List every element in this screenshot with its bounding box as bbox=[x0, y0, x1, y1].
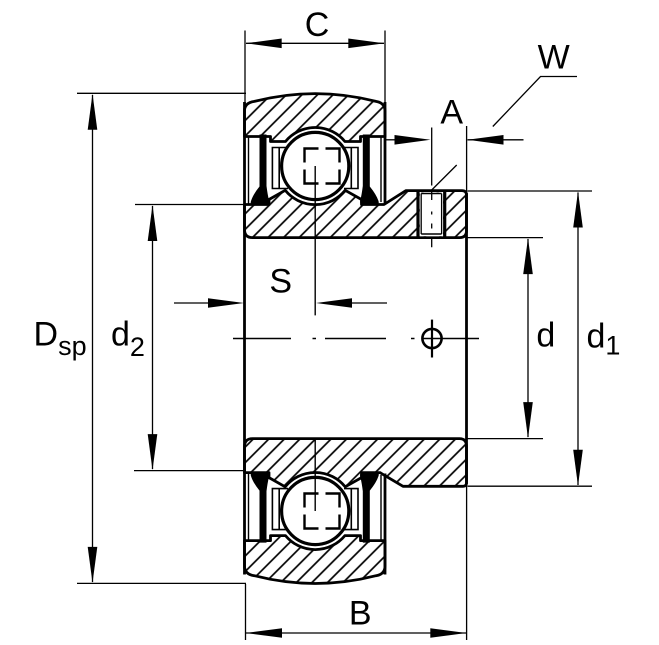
seal washer line right top bbox=[380, 137, 382, 203]
screw position circle vertical tick bbox=[431, 320, 433, 358]
B arrow right bbox=[430, 628, 466, 638]
A dimension right arrow bbox=[468, 139, 524, 141]
cage bottom-right lines bbox=[344, 489, 358, 530]
cage top-right lines bbox=[344, 148, 358, 189]
S dimension left arrow bbox=[174, 302, 209, 304]
d2 extension line top bbox=[135, 204, 246, 206]
Dsp extension line top bbox=[77, 92, 246, 94]
cage top-left lines bbox=[272, 148, 288, 189]
A extension line right bbox=[466, 126, 468, 640]
ball top bbox=[282, 132, 349, 199]
outer ring right face bottom bbox=[384, 474, 387, 575]
ball bottom bbox=[282, 477, 349, 544]
ball center plane line bottom bbox=[314, 439, 316, 511]
seal bottom-right (black) bbox=[360, 472, 379, 542]
grub screw top edge bbox=[421, 193, 441, 195]
seal washer line left bottom bbox=[248, 473, 250, 541]
seal top-left (black) bbox=[251, 135, 269, 205]
S dimension right arrow bbox=[352, 302, 387, 304]
grub screw hole (white cut in top band) bbox=[420, 192, 443, 236]
d2 dimension line bbox=[152, 206, 154, 469]
C dimension line bbox=[246, 42, 384, 44]
d1 extension line top bbox=[468, 190, 593, 192]
seal washer line left top bbox=[248, 137, 250, 205]
d1 extension line bottom bbox=[468, 485, 593, 487]
ball top dashed square bbox=[305, 149, 340, 184]
screw position circle bbox=[422, 329, 441, 348]
C extension line left bbox=[244, 31, 246, 105]
d arrow bottom bbox=[523, 402, 533, 438]
d1 arrow top bbox=[573, 192, 583, 228]
grub screw thread line left bbox=[420, 194, 422, 235]
d extension line top bbox=[468, 237, 544, 239]
grub screw hole right wall bbox=[443, 191, 446, 237]
left face line bbox=[243, 102, 246, 575]
Dsp extension line bottom bbox=[77, 582, 246, 584]
B arrow left bbox=[246, 628, 282, 638]
svg-text:d: d bbox=[536, 317, 555, 355]
inner ring top band (hatched) bbox=[245, 190, 467, 237]
outer ring right face top bbox=[384, 102, 387, 203]
seal washer line right bottom bbox=[380, 475, 382, 541]
grub screw axis centerline bbox=[431, 128, 433, 248]
Dsp arrow bottom bbox=[88, 547, 98, 583]
d2 arrow bottom bbox=[148, 434, 158, 470]
B dimension line bbox=[246, 632, 466, 634]
d dimension line bbox=[527, 239, 529, 437]
C arrow right bbox=[348, 39, 384, 49]
outer ring top section (hatched) bbox=[245, 94, 386, 142]
d2 extension line bottom bbox=[134, 470, 246, 472]
A dimension left arrow bbox=[386, 139, 395, 141]
d2 arrow top bbox=[148, 205, 158, 241]
inner ring right face bbox=[465, 193, 468, 484]
seal bottom-left (black) bbox=[251, 472, 269, 542]
Dsp arrow top bbox=[88, 94, 98, 130]
grub screw hole left wall bbox=[416, 191, 419, 237]
Dsp dimension line bbox=[92, 95, 94, 582]
outer ring bottom section (hatched) bbox=[245, 536, 386, 584]
inner ring bottom band (hatched) bbox=[245, 439, 467, 487]
ball center plane line top bbox=[314, 166, 316, 315]
cage bottom-left lines bbox=[272, 489, 288, 530]
centerline horizontal bbox=[233, 338, 479, 340]
svg-text:W: W bbox=[538, 39, 570, 77]
d1 dimension line bbox=[577, 193, 579, 486]
W leader line bbox=[432, 77, 577, 191]
seal top-right (black) bbox=[360, 135, 379, 205]
grub screw bottom edge bbox=[421, 233, 441, 235]
C extension line right bbox=[384, 31, 386, 105]
ball bottom dashed square bbox=[305, 494, 340, 529]
C arrow left bbox=[246, 39, 282, 49]
d extension line bottom bbox=[468, 438, 544, 440]
svg-text:S: S bbox=[269, 263, 292, 301]
svg-text:A: A bbox=[440, 93, 463, 131]
grub screw thread line right bbox=[441, 194, 443, 235]
svg-text:B: B bbox=[349, 595, 372, 633]
d arrow top bbox=[523, 238, 533, 274]
B extension line left bbox=[245, 584, 247, 640]
svg-text:C: C bbox=[305, 6, 330, 44]
d1 arrow bottom bbox=[573, 450, 583, 486]
